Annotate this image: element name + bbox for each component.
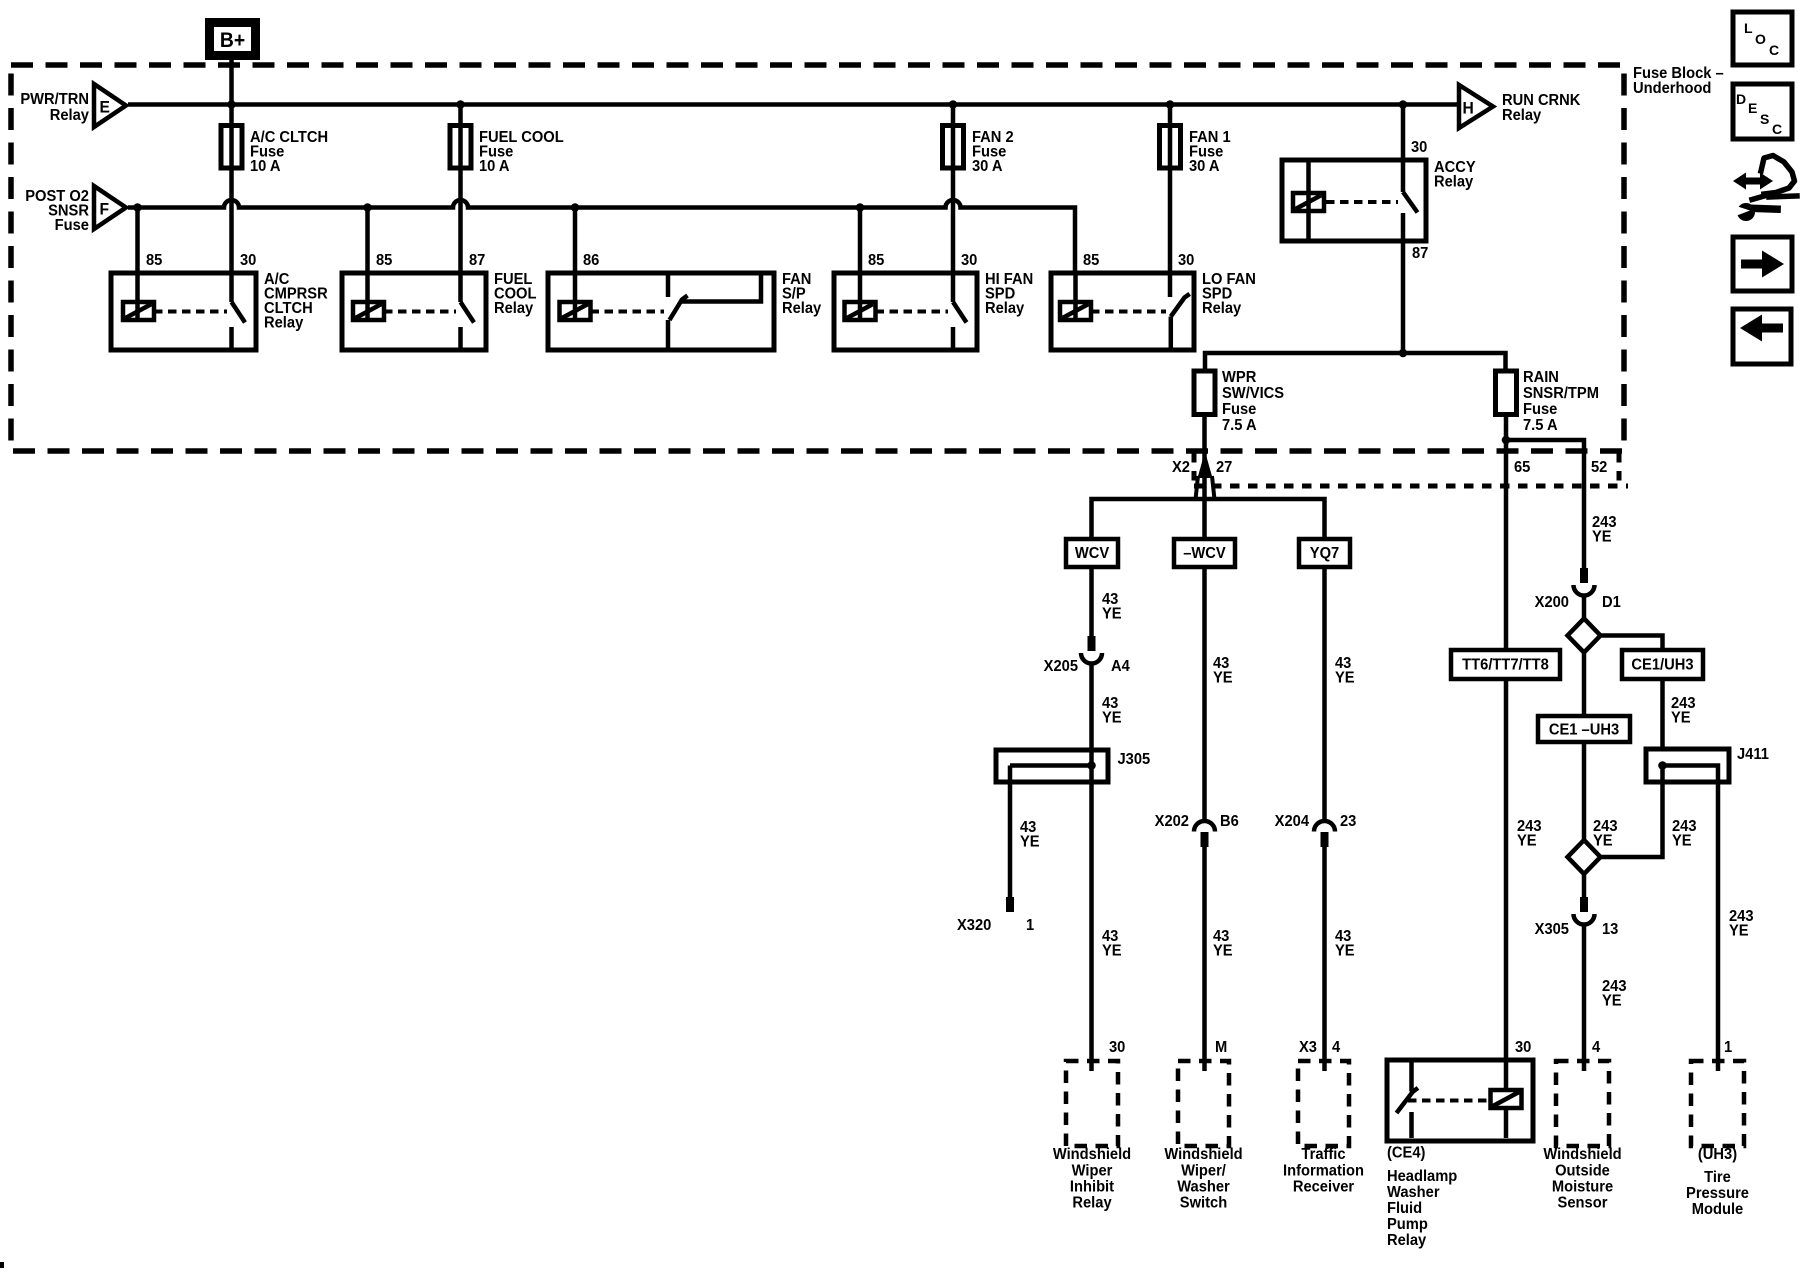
svg-text:CE1 –UH3: CE1 –UH3 <box>1549 721 1619 739</box>
svg-text:Relay: Relay <box>1502 106 1542 124</box>
svg-text:30: 30 <box>1109 1038 1125 1056</box>
svg-text:TT6/TT7/TT8: TT6/TT7/TT8 <box>1462 656 1549 674</box>
svg-text:YQ7: YQ7 <box>1310 544 1339 562</box>
svg-text:E: E <box>1748 100 1757 116</box>
svg-text:J305: J305 <box>1117 750 1150 768</box>
svg-text:Module: Module <box>1692 1200 1744 1218</box>
svg-text:Relay: Relay <box>264 314 304 332</box>
svg-text:7.5 A: 7.5 A <box>1523 416 1558 434</box>
svg-text:87: 87 <box>469 251 485 269</box>
svg-text:(CE4): (CE4) <box>1387 1144 1425 1162</box>
svg-text:Relay: Relay <box>50 106 90 124</box>
svg-text:X204: X204 <box>1275 812 1310 830</box>
svg-text:30 A: 30 A <box>1189 157 1220 175</box>
svg-text:Relay: Relay <box>1202 299 1242 317</box>
svg-text:B6: B6 <box>1220 812 1239 830</box>
svg-text:CE1/UH3: CE1/UH3 <box>1631 656 1693 674</box>
svg-text:10 A: 10 A <box>479 157 510 175</box>
svg-text:27: 27 <box>1216 458 1232 476</box>
svg-text:C: C <box>1772 121 1782 137</box>
svg-text:30: 30 <box>1178 251 1194 269</box>
svg-text:Switch: Switch <box>1180 1194 1227 1212</box>
svg-text:YE: YE <box>1020 833 1040 851</box>
svg-text:YE: YE <box>1671 709 1691 727</box>
svg-text:YE: YE <box>1593 832 1613 850</box>
svg-text:85: 85 <box>146 251 163 269</box>
svg-text:YE: YE <box>1102 605 1122 623</box>
svg-text:YE: YE <box>1602 992 1622 1010</box>
svg-text:52: 52 <box>1591 458 1607 476</box>
svg-text:30: 30 <box>240 251 256 269</box>
svg-text:Relay: Relay <box>985 299 1025 317</box>
svg-text:X200: X200 <box>1535 593 1569 611</box>
svg-text:Receiver: Receiver <box>1293 1178 1354 1196</box>
svg-text:YE: YE <box>1729 922 1749 940</box>
svg-text:Fuse: Fuse <box>55 216 90 234</box>
svg-text:B+: B+ <box>220 29 245 52</box>
svg-text:Windshield: Windshield <box>1164 1145 1242 1163</box>
svg-text:13: 13 <box>1602 920 1618 938</box>
svg-text:23: 23 <box>1340 812 1356 830</box>
svg-text:YE: YE <box>1672 832 1692 850</box>
svg-text:86: 86 <box>583 251 599 269</box>
svg-text:YE: YE <box>1517 832 1537 850</box>
svg-text:X305: X305 <box>1535 920 1570 938</box>
svg-text:X202: X202 <box>1155 812 1189 830</box>
svg-text:Sensor: Sensor <box>1558 1194 1608 1212</box>
svg-text:10 A: 10 A <box>250 157 281 175</box>
svg-text:H: H <box>1462 99 1473 118</box>
svg-text:4: 4 <box>1332 1038 1341 1056</box>
svg-text:F: F <box>99 200 109 219</box>
svg-text:C: C <box>1769 42 1779 58</box>
svg-text:Relay: Relay <box>1434 173 1474 191</box>
svg-text:30 A: 30 A <box>972 157 1003 175</box>
svg-text:S: S <box>1760 111 1769 127</box>
svg-text:30: 30 <box>1515 1038 1531 1056</box>
svg-text:Relay: Relay <box>1072 1194 1112 1212</box>
svg-text:1: 1 <box>1724 1038 1733 1056</box>
svg-text:YE: YE <box>1213 669 1233 687</box>
svg-text:E: E <box>99 98 110 117</box>
svg-text:J411: J411 <box>1737 745 1769 763</box>
svg-text:M: M <box>1215 1038 1227 1056</box>
svg-text:D: D <box>1736 91 1746 107</box>
svg-text:WCV: WCV <box>1075 544 1110 562</box>
svg-text:87: 87 <box>1412 244 1428 262</box>
svg-text:30: 30 <box>1411 138 1427 156</box>
svg-text:4: 4 <box>1592 1038 1601 1056</box>
svg-text:X205: X205 <box>1044 657 1079 675</box>
svg-text:YE: YE <box>1213 942 1233 960</box>
svg-text:X320: X320 <box>957 916 991 934</box>
svg-text:Relay: Relay <box>494 299 534 317</box>
svg-text:O: O <box>1755 31 1766 47</box>
svg-text:85: 85 <box>868 251 885 269</box>
svg-text:30: 30 <box>961 251 977 269</box>
svg-text:D1: D1 <box>1602 593 1621 611</box>
svg-text:–WCV: –WCV <box>1183 544 1226 562</box>
svg-text:L: L <box>1744 20 1753 36</box>
svg-text:YE: YE <box>1335 942 1355 960</box>
svg-text:YE: YE <box>1335 669 1355 687</box>
svg-text:85: 85 <box>1083 251 1100 269</box>
svg-text:(UH3): (UH3) <box>1698 1145 1737 1163</box>
svg-text:YE: YE <box>1102 942 1122 960</box>
svg-text:Relay: Relay <box>1387 1231 1427 1249</box>
svg-text:A4: A4 <box>1111 657 1130 675</box>
svg-text:1: 1 <box>1026 916 1035 934</box>
svg-text:Traffic: Traffic <box>1301 1145 1346 1163</box>
svg-text:7.5 A: 7.5 A <box>1222 416 1257 434</box>
svg-text:Relay: Relay <box>782 299 822 317</box>
svg-text:Windshield: Windshield <box>1053 1145 1131 1163</box>
svg-text:85: 85 <box>376 251 393 269</box>
svg-text:Underhood: Underhood <box>1633 79 1711 97</box>
svg-text:X2: X2 <box>1172 458 1190 476</box>
svg-text:Windshield: Windshield <box>1543 1145 1621 1163</box>
svg-text:65: 65 <box>1514 458 1531 476</box>
svg-text:YE: YE <box>1102 709 1122 727</box>
svg-text:YE: YE <box>1592 528 1612 546</box>
svg-text:X3: X3 <box>1299 1038 1317 1056</box>
